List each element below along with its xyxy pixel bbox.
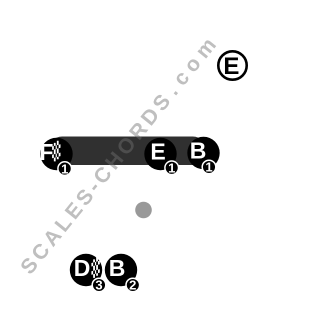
fret marker dot: [135, 202, 152, 219]
note disc E (middle): [144, 138, 176, 170]
badge 1 under B: [202, 160, 216, 175]
badge 1 under E: [165, 161, 179, 176]
note disc B (bottom): [105, 254, 137, 286]
svg-text:F: F: [39, 139, 53, 165]
svg-text:1: 1: [168, 161, 175, 176]
svg-text:1: 1: [205, 160, 212, 175]
barre bar fret 2: [48, 137, 207, 166]
svg-text:D: D: [74, 255, 91, 281]
svg-text:E: E: [150, 139, 165, 165]
svg-text:2: 2: [129, 278, 136, 293]
badge 2 under bottom B: [126, 278, 140, 293]
note disc D# (bottom): [70, 254, 102, 286]
svg-text:3: 3: [95, 278, 102, 293]
note disc B (middle): [187, 137, 219, 169]
badge 1 under F#: [58, 161, 72, 176]
note disc F#: [40, 138, 72, 170]
svg-text:B: B: [109, 255, 126, 281]
F# label: [39, 139, 60, 165]
svg-text:B: B: [190, 137, 207, 163]
root disc E (open string, top right): [218, 51, 246, 80]
badge 3 under D#: [92, 278, 106, 293]
D# label: [74, 255, 100, 281]
svg-text:E: E: [223, 53, 239, 80]
svg-text:1: 1: [61, 161, 68, 176]
